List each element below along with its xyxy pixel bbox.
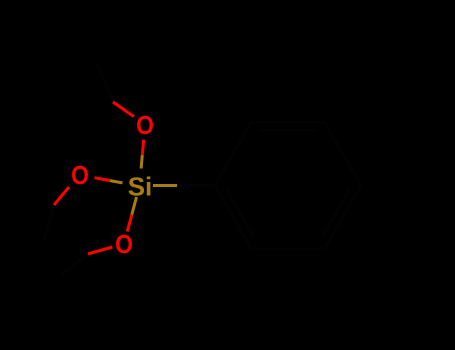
svg-text:Si: Si (128, 172, 153, 202)
svg-text:O: O (136, 112, 154, 141)
svg-text:O: O (71, 162, 89, 191)
svg-text:O: O (115, 231, 133, 260)
